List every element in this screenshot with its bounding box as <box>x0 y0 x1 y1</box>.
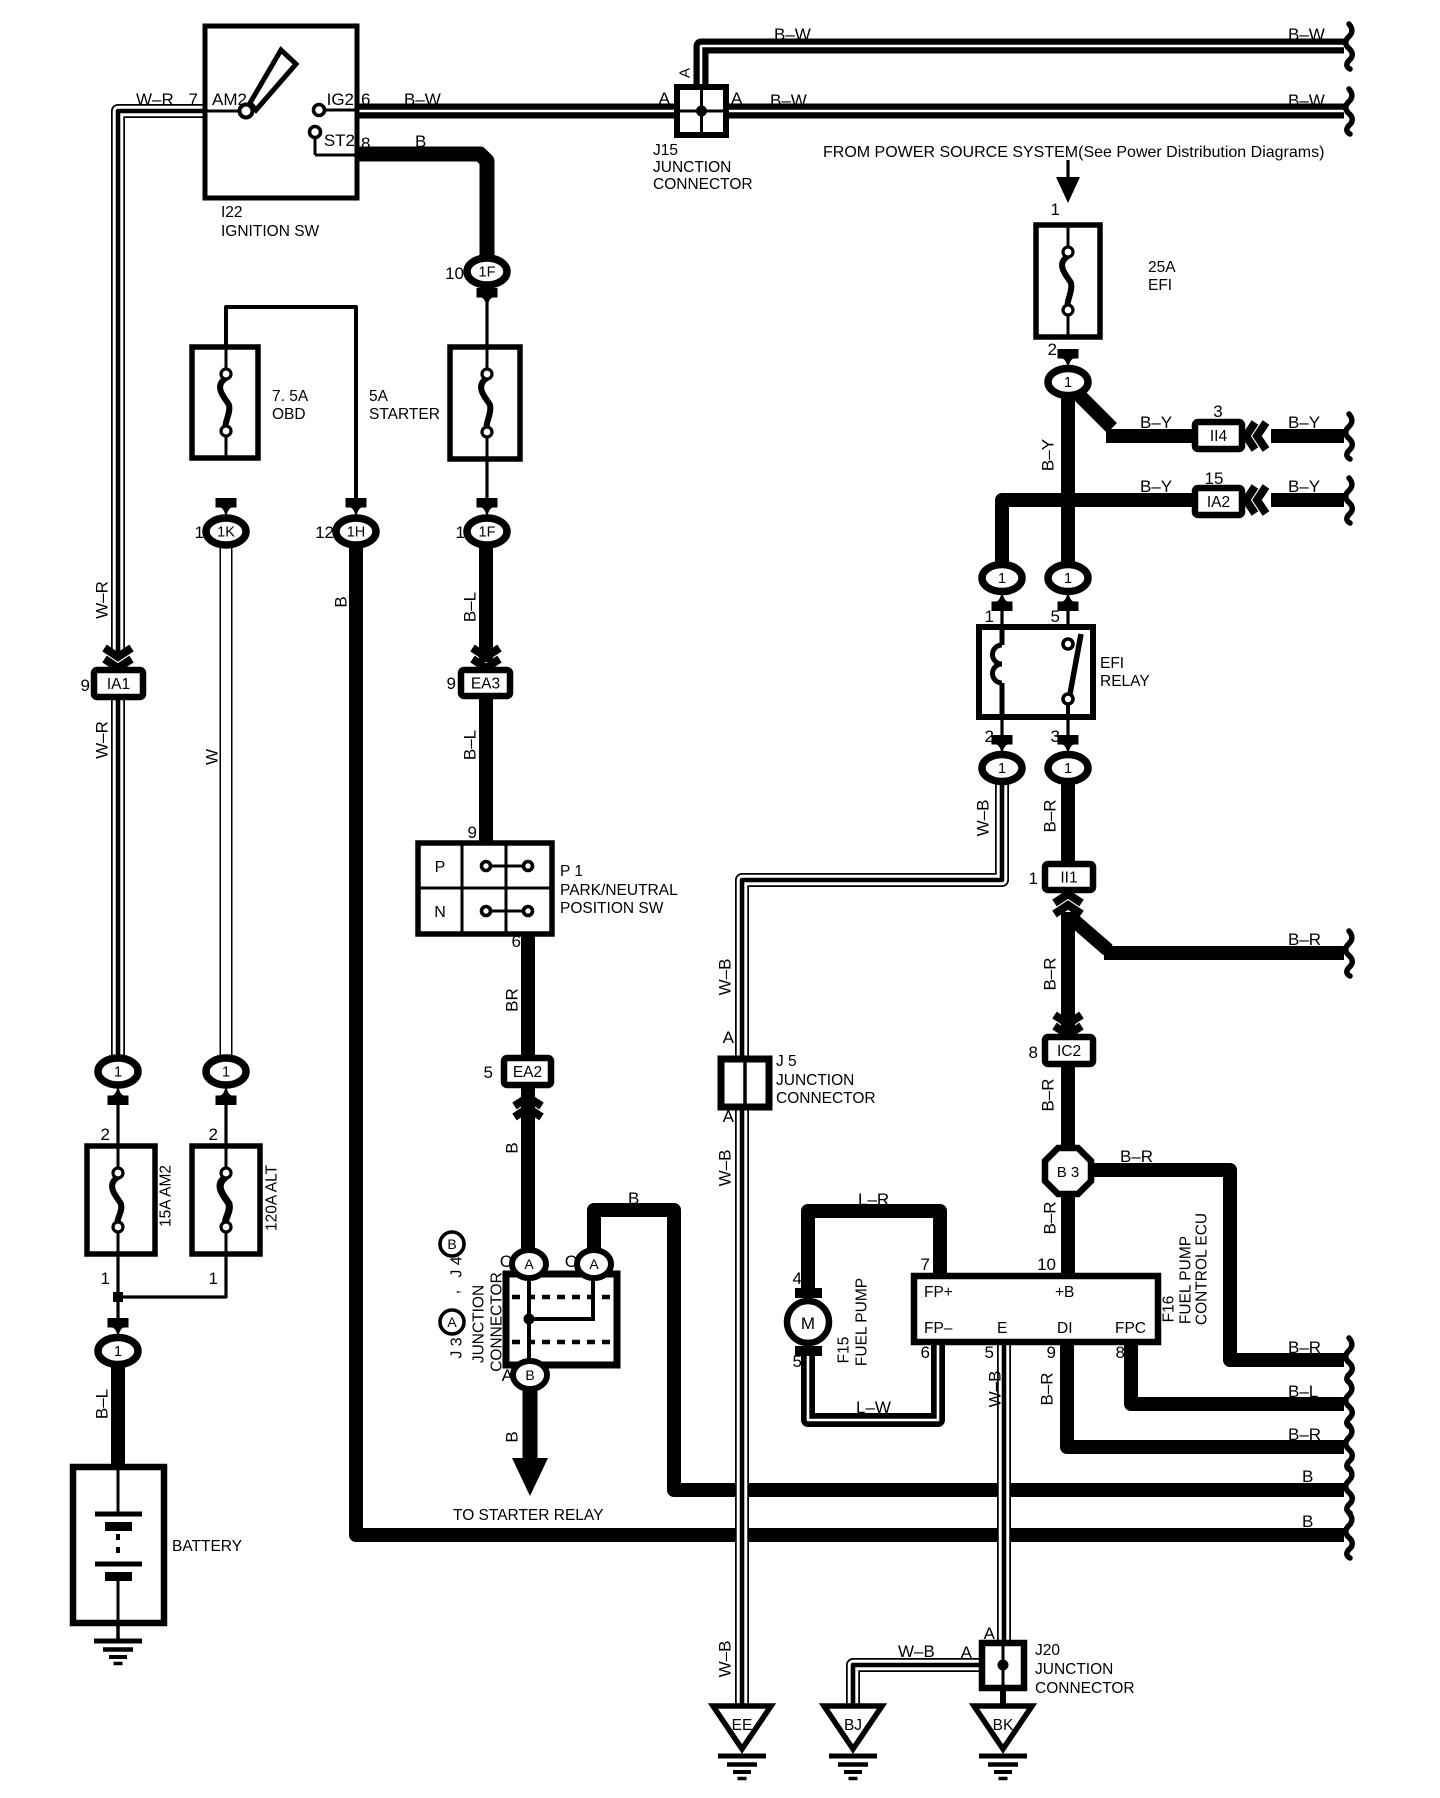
svg-text:IA2: IA2 <box>1207 494 1230 511</box>
arrow into EFI fuse oval <box>1058 349 1079 370</box>
connector IA2 <box>1195 488 1242 515</box>
svg-text:B–R: B–R <box>1041 957 1060 990</box>
svg-text:1: 1 <box>998 761 1006 777</box>
park/neutral position switch P1 box <box>418 843 552 934</box>
terminal 1 relay pin2 <box>982 755 1022 782</box>
wire B-R from ECU DI pin 9 to harness <box>1067 1340 1344 1447</box>
wire thin from 15A AM2 fuse to junction <box>116 1254 119 1322</box>
terminal 1 left <box>98 1058 138 1085</box>
svg-text:,: , <box>446 1290 463 1294</box>
svg-text:7. 5A: 7. 5A <box>272 388 309 405</box>
svg-text:IA1: IA1 <box>107 676 130 693</box>
wire L-W from fuel pump pin 5 to ECU FP- pin 6 <box>808 1340 938 1420</box>
svg-text:B–R: B–R <box>1041 1201 1060 1234</box>
svg-text:1: 1 <box>114 1065 122 1081</box>
arrow from power source into EFI fuse <box>1056 177 1080 203</box>
connector II1 <box>1045 864 1093 890</box>
svg-text:3: 3 <box>1213 402 1222 421</box>
connector IC2 <box>1045 1037 1093 1064</box>
svg-text:B–L: B–L <box>461 730 480 760</box>
svg-text:J 4: J 4 <box>449 1256 466 1277</box>
svg-text:L–W: L–W <box>856 1398 891 1417</box>
wire B-W from J15 junction connector to harness <box>703 104 1344 119</box>
svg-text:B–L: B–L <box>93 1389 112 1419</box>
svg-text:9: 9 <box>1047 1343 1056 1362</box>
svg-text:1: 1 <box>1051 200 1060 219</box>
svg-text:A: A <box>502 1366 514 1385</box>
double arrow into IC2 <box>1055 1026 1082 1035</box>
connector II4 <box>1195 422 1242 449</box>
double arrow into EA2 <box>515 1097 542 1106</box>
arrow into relay pin3 oval <box>1058 735 1079 756</box>
EFI relay box <box>979 627 1093 717</box>
svg-text:JUNCTION: JUNCTION <box>471 1285 488 1363</box>
svg-text:BJ: BJ <box>844 1717 862 1734</box>
arrow into 1H oval <box>346 498 367 519</box>
wire thin from power source arrow to EFI fuse <box>1066 160 1069 180</box>
svg-text:EFI: EFI <box>1148 277 1172 294</box>
svg-text:5A: 5A <box>369 388 389 405</box>
svg-text:F15: F15 <box>836 1337 853 1364</box>
svg-text:EA3: EA3 <box>471 676 500 693</box>
svg-text:2: 2 <box>101 1125 110 1144</box>
svg-text:IGNITION SW: IGNITION SW <box>221 223 320 240</box>
wire thin starter-fuse output <box>485 459 488 505</box>
svg-text:W–R: W–R <box>93 721 112 759</box>
fuse 7.5A OBD <box>192 347 258 458</box>
wire thin from OBD fuse top to connector 1H <box>226 307 356 505</box>
svg-text:RELAY: RELAY <box>1100 673 1150 690</box>
wire W-B from ECU E pin 5 to J20 junction connector <box>997 1340 1011 1645</box>
svg-text:8: 8 <box>361 134 370 153</box>
svg-text:A: A <box>677 68 694 78</box>
fuel pump control ECU box <box>914 1276 1158 1342</box>
wire W-B from J20 junction connector to ground BJ <box>853 1665 980 1708</box>
svg-text:P: P <box>435 859 446 876</box>
wire B-R from node B3 right to harness <box>1088 1170 1344 1360</box>
harness end B-Y lower <box>1346 478 1353 523</box>
ignition switch IG2 contact <box>314 105 358 116</box>
EFI relay switch <box>1063 634 1081 717</box>
svg-text:J 5: J 5 <box>776 1053 797 1070</box>
svg-text:J20: J20 <box>1035 1642 1060 1659</box>
svg-text:BATTERY: BATTERY <box>172 1538 242 1555</box>
svg-text:II1: II1 <box>1060 870 1077 887</box>
svg-text:CONNECTOR: CONNECTOR <box>1035 1680 1135 1697</box>
svg-text:2: 2 <box>985 727 994 746</box>
arrow into right oval 1 <box>216 1085 237 1106</box>
ground BK triangle <box>974 1706 1032 1749</box>
svg-text:1: 1 <box>1029 869 1038 888</box>
harness end B-R right <box>1346 1338 1353 1383</box>
label J3 circled A <box>440 1310 464 1334</box>
svg-text:ST2: ST2 <box>324 131 355 150</box>
ECU pin stub FP+ <box>933 1262 947 1276</box>
svg-text:B: B <box>332 596 351 607</box>
harness end B-W second <box>1346 89 1353 134</box>
svg-text:10: 10 <box>445 264 464 283</box>
svg-text:EE: EE <box>732 1717 753 1734</box>
junction connector J3/J4 box <box>506 1274 617 1365</box>
double arrow into EA3 <box>473 659 500 668</box>
svg-text:TO STARTER RELAY: TO STARTER RELAY <box>453 1507 603 1524</box>
fuel pump motor M <box>787 1288 829 1356</box>
svg-text:+B: +B <box>1055 1284 1074 1301</box>
terminal 1 EFI fuse <box>1048 369 1088 396</box>
junction connector J15 box <box>677 87 726 135</box>
svg-text:B–R: B–R <box>1120 1147 1153 1166</box>
wire thin relay pin 5 <box>1066 606 1069 629</box>
wire B-R from node B3 to ECU +B pin 10 <box>1061 1190 1075 1279</box>
svg-text:L–R: L–R <box>858 1190 889 1209</box>
svg-text:25A: 25A <box>1148 259 1176 276</box>
wire B-L from EA3 to P1 pin 9 <box>479 694 493 846</box>
svg-text:B–L: B–L <box>1288 1382 1318 1401</box>
svg-text:I22: I22 <box>221 204 243 221</box>
svg-text:1: 1 <box>101 1269 110 1288</box>
svg-text:J 3: J 3 <box>449 1337 466 1358</box>
svg-text:B: B <box>525 1367 534 1383</box>
svg-text:1: 1 <box>1064 375 1072 391</box>
svg-text:B: B <box>503 1142 522 1153</box>
svg-text:1: 1 <box>1064 761 1072 777</box>
svg-text:W–B: W–B <box>716 1150 735 1187</box>
wire B-Y elbow to relay pin 1 oval <box>1002 500 1197 566</box>
ignition switch I22 box <box>205 26 357 198</box>
svg-text:A: A <box>723 1028 735 1047</box>
svg-text:5: 5 <box>793 1352 802 1371</box>
svg-text:1K: 1K <box>217 525 235 541</box>
fuse 15A AM2 <box>87 1146 155 1254</box>
svg-text:A: A <box>589 1256 599 1272</box>
svg-text:1: 1 <box>1064 571 1072 587</box>
svg-text:W–B: W–B <box>986 1371 1005 1408</box>
svg-text:II4: II4 <box>1210 428 1228 445</box>
wire thin relay pin 2 <box>1000 715 1003 740</box>
svg-text:EFI: EFI <box>1100 655 1124 672</box>
wire B-R from II1 to IC2 <box>1061 912 1075 1040</box>
J3/J4 terminal A top-right <box>577 1250 611 1278</box>
svg-text:120A ALT: 120A ALT <box>264 1164 281 1231</box>
svg-text:FPC: FPC <box>1115 1320 1146 1337</box>
svg-text:JUNCTION: JUNCTION <box>776 1072 854 1089</box>
svg-text:6: 6 <box>512 932 521 951</box>
wire thin battery negative to ground <box>116 1580 120 1641</box>
wire B-L from oval to battery <box>111 1363 125 1470</box>
P1 P-row contact <box>482 862 533 871</box>
svg-text:3: 3 <box>1051 727 1060 746</box>
battery cells <box>95 1467 142 1623</box>
wire B-W from J15 junction connector top to harness <box>701 46 1344 94</box>
svg-text:9: 9 <box>468 823 477 842</box>
svg-text:1: 1 <box>114 1344 122 1360</box>
svg-text:B–Y: B–Y <box>1288 413 1320 432</box>
battery box <box>73 1467 164 1623</box>
harness end B upper <box>1346 1468 1353 1513</box>
terminal 1 battery <box>98 1338 138 1365</box>
harness end B-R mid <box>1346 931 1353 976</box>
wire B from 1H oval to bottom bus <box>356 544 1344 1535</box>
svg-text:FP+: FP+ <box>924 1284 953 1301</box>
wire W-R from ignition AM2 pin 7 down left side <box>118 111 205 656</box>
ECU pin stub +B <box>1061 1262 1075 1276</box>
svg-text:B–Y: B–Y <box>1140 413 1172 432</box>
EFI relay coil <box>993 627 1003 717</box>
svg-text:B–W: B–W <box>774 25 811 44</box>
svg-text:E: E <box>997 1320 1007 1337</box>
svg-text:B–Y: B–Y <box>1288 477 1320 496</box>
svg-text:B–R: B–R <box>1041 799 1060 832</box>
svg-text:8: 8 <box>1029 1043 1038 1062</box>
svg-text:4: 4 <box>793 1269 802 1288</box>
svg-text:B–R: B–R <box>1038 1372 1057 1405</box>
arrow into 1K oval <box>216 498 237 519</box>
wire thin from oval to 120A ALT fuse <box>224 1102 227 1146</box>
svg-text:12: 12 <box>315 523 334 542</box>
svg-text:B–Y: B–Y <box>1140 477 1172 496</box>
terminal 1 relay pin3 <box>1048 755 1088 782</box>
connector EA3 <box>461 670 510 696</box>
node B3 <box>1045 1148 1091 1194</box>
svg-text:C: C <box>500 1252 512 1271</box>
terminal 1H <box>336 518 376 545</box>
svg-text:IG2: IG2 <box>327 90 354 109</box>
svg-text:STARTER: STARTER <box>369 406 440 423</box>
wire thin relay pin 1 <box>1000 606 1003 629</box>
svg-text:B–W: B–W <box>404 90 441 109</box>
arrow into battery oval 1 <box>108 1318 129 1339</box>
svg-text:15A AM2: 15A AM2 <box>158 1165 175 1227</box>
svg-text:JUNCTION: JUNCTION <box>1035 1661 1113 1678</box>
wire W-R from IA1 to oval <box>111 694 125 1060</box>
svg-text:W: W <box>203 749 222 765</box>
svg-text:B–Y: B–Y <box>1039 439 1058 471</box>
svg-text:1F: 1F <box>479 265 496 281</box>
terminal 1F lower <box>467 518 507 545</box>
svg-text:CONNECTOR: CONNECTOR <box>776 1090 876 1107</box>
svg-text:1: 1 <box>209 1269 218 1288</box>
arrow to starter relay <box>512 1458 548 1496</box>
wire thin from 120A ALT fuse to junction <box>118 1254 226 1297</box>
svg-text:FUEL PUMP: FUEL PUMP <box>1178 1236 1195 1324</box>
svg-text:PARK/NEUTRAL: PARK/NEUTRAL <box>560 882 678 899</box>
svg-text:BK: BK <box>993 1717 1014 1734</box>
fuse 25A EFI <box>1036 225 1100 337</box>
svg-text:B: B <box>628 1189 639 1208</box>
svg-text:POSITION SW: POSITION SW <box>560 900 664 917</box>
wire thin starter-fuse feed below 1F oval <box>485 300 488 347</box>
wire L-R from ECU FP+ pin 7 to fuel pump pin 4 <box>808 1211 940 1292</box>
svg-text:5: 5 <box>1051 607 1060 626</box>
svg-text:IC2: IC2 <box>1057 1043 1081 1060</box>
wire BR from P1 pin 6 to EA2 <box>521 932 535 1060</box>
J3/J4 terminal A top-left <box>512 1250 546 1278</box>
svg-text:B–R: B–R <box>1039 1078 1058 1111</box>
svg-text:B: B <box>1302 1467 1313 1486</box>
svg-text:B–L: B–L <box>461 592 480 622</box>
double arrow into II1 <box>1055 894 1082 903</box>
harness end B-W top <box>1346 24 1353 69</box>
svg-text:P 1: P 1 <box>560 863 583 880</box>
svg-text:B–R: B–R <box>1288 930 1321 949</box>
svg-text:JUNCTION: JUNCTION <box>653 159 731 176</box>
battery ground <box>94 1641 142 1664</box>
svg-text:W–B: W–B <box>716 959 735 996</box>
svg-text:A: A <box>524 1256 534 1272</box>
svg-text:FP–: FP– <box>924 1320 953 1337</box>
junction connector J20 box <box>982 1643 1024 1688</box>
svg-text:15: 15 <box>1205 469 1224 488</box>
terminal 1 relay pin5 <box>1048 565 1088 592</box>
svg-text:A: A <box>723 1107 735 1126</box>
wire B-L from 1F oval to EA3 <box>479 543 493 662</box>
svg-text:W–B: W–B <box>716 1641 735 1678</box>
svg-text:CONNECTOR: CONNECTOR <box>653 176 753 193</box>
svg-text:2: 2 <box>209 1125 218 1144</box>
harness end B-R lower <box>1346 1425 1353 1470</box>
svg-text:OBD: OBD <box>272 406 306 423</box>
wire W-B from relay pin 2 oval to J5 junction connector <box>742 779 1002 1061</box>
ground EE triangle <box>713 1706 771 1749</box>
svg-text:B–W: B–W <box>1288 25 1325 44</box>
svg-text:1: 1 <box>222 1065 230 1081</box>
ground EE bars <box>718 1756 766 1779</box>
svg-text:CONTROL ECU: CONTROL ECU <box>1194 1213 1211 1325</box>
terminal 1 right <box>206 1058 246 1085</box>
ground BJ triangle <box>824 1706 882 1749</box>
fuse 120A ALT <box>192 1146 260 1254</box>
svg-text:C: C <box>565 1252 577 1271</box>
wire B from J3 junction connector to bottom bus <box>594 1210 1344 1490</box>
svg-text:2: 2 <box>1048 340 1057 359</box>
wire thin relay pin 3 <box>1066 715 1069 740</box>
wire B-R branch to harness <box>1104 946 1344 960</box>
J3/J4 terminal B bottom <box>513 1361 547 1389</box>
ground BK bars <box>979 1756 1027 1779</box>
ignition switch key lever <box>250 50 296 110</box>
svg-text:1: 1 <box>195 523 204 542</box>
harness end B-L right <box>1346 1382 1353 1427</box>
svg-text:1: 1 <box>456 523 465 542</box>
connector IA1 <box>94 670 143 697</box>
arrow into lower 1F oval <box>477 498 498 519</box>
double arrow into IA1 <box>105 659 132 668</box>
junction dot battery feed <box>113 1292 123 1302</box>
wire thin from oval to 15A AM2 fuse <box>116 1102 119 1146</box>
fuse 5A STARTER <box>450 347 520 459</box>
svg-text:B–W: B–W <box>770 91 807 110</box>
svg-text:B–W: B–W <box>1288 91 1325 110</box>
svg-text:8: 8 <box>1116 1343 1125 1362</box>
svg-text:W–R: W–R <box>93 581 112 619</box>
svg-text:6: 6 <box>921 1343 930 1362</box>
svg-text:5: 5 <box>484 1063 493 1082</box>
svg-text:10: 10 <box>1037 1255 1056 1274</box>
svg-text:B–R: B–R <box>1288 1425 1321 1444</box>
connector EA2 <box>504 1058 551 1085</box>
svg-text:W–B: W–B <box>898 1642 935 1661</box>
svg-text:1H: 1H <box>347 525 366 541</box>
svg-text:1: 1 <box>998 571 1006 587</box>
svg-text:FUEL PUMP: FUEL PUMP <box>854 1278 871 1366</box>
arrow into relay pin5 oval <box>1058 591 1079 612</box>
svg-text:6: 6 <box>361 90 370 109</box>
wire B-Y to connector II4 <box>1106 429 1197 443</box>
svg-text:B: B <box>415 132 426 151</box>
P1 N-row contact <box>482 907 533 916</box>
terminal 1K <box>206 518 246 545</box>
wire from J20 junction connector to ground BK <box>1000 1686 1006 1708</box>
svg-text:9: 9 <box>447 674 456 693</box>
svg-text:5: 5 <box>985 1343 994 1362</box>
double arrow into II4 <box>1246 423 1255 450</box>
double arrow into IA2 <box>1246 487 1255 514</box>
wire B-R from IC2 to node B3 <box>1061 1062 1075 1152</box>
svg-text:B–R: B–R <box>1288 1338 1321 1357</box>
ignition switch ST2 contact <box>310 127 358 156</box>
wire B-R from relay pin 3 oval to II1 <box>1061 780 1075 866</box>
ground BJ bars <box>829 1756 877 1779</box>
svg-text:N: N <box>434 904 446 921</box>
label J4 circled B <box>440 1232 464 1256</box>
harness end B-Y upper <box>1346 414 1353 459</box>
svg-text:CONNECTOR: CONNECTOR <box>489 1272 506 1372</box>
svg-text:A: A <box>984 1624 996 1643</box>
terminal 1F upper <box>467 258 507 285</box>
wire B-Y from EFI fuse oval to relay pin 5 oval <box>1061 394 1075 566</box>
svg-text:7: 7 <box>921 1255 930 1274</box>
svg-text:1: 1 <box>985 607 994 626</box>
svg-text:B: B <box>503 1431 522 1442</box>
svg-text:FROM POWER SOURCE SYSTEM(See P: FROM POWER SOURCE SYSTEM(See Power Distr… <box>823 144 1324 161</box>
terminal 1 relay pin1 <box>982 565 1022 592</box>
wire B-W from ignition IG2 pin 6 to J15 junction connector <box>357 104 700 119</box>
junction connector J5 box <box>721 1059 769 1107</box>
svg-text:B: B <box>447 1236 456 1252</box>
harness end B lower <box>1346 1513 1353 1558</box>
wire B-Y from harness into II4 <box>1271 429 1344 443</box>
ignition switch AM2 contact <box>205 105 253 118</box>
wire B-Y from harness into IA2 <box>1271 493 1344 507</box>
svg-text:W–R: W–R <box>136 90 174 109</box>
svg-text:AM2: AM2 <box>212 90 247 109</box>
wire B-L from ECU FPC pin 8 to harness <box>1131 1340 1344 1404</box>
svg-text:A: A <box>961 1643 973 1662</box>
wire B from EA2 to J3 junction connector <box>521 1083 535 1276</box>
svg-text:1F: 1F <box>479 525 496 541</box>
arrow into left oval 1 <box>108 1085 129 1106</box>
svg-text:7: 7 <box>189 90 198 109</box>
arrow into relay pin1 oval <box>992 591 1013 612</box>
svg-text:B: B <box>1302 1512 1313 1531</box>
svg-text:DI: DI <box>1057 1320 1073 1337</box>
arrow into relay pin2 oval <box>992 735 1013 756</box>
svg-text:A: A <box>447 1314 457 1330</box>
svg-text:W–B: W–B <box>974 800 993 837</box>
wire B-Y diagonal branch to II4 <box>1070 386 1112 428</box>
svg-text:B 3: B 3 <box>1057 1164 1080 1181</box>
wire W-B from J5 junction connector to ground EE <box>735 1105 749 1708</box>
svg-text:BR: BR <box>503 988 522 1012</box>
svg-text:EA2: EA2 <box>513 1064 542 1081</box>
svg-text:9: 9 <box>81 676 90 695</box>
svg-text:F16: F16 <box>1161 1296 1178 1323</box>
wire W below connector 1K <box>220 543 233 1060</box>
svg-text:A: A <box>731 89 743 108</box>
svg-text:J15: J15 <box>653 142 678 159</box>
arrow into 1F oval <box>477 288 498 309</box>
wire B-R diagonal branch below II1 <box>1070 917 1108 950</box>
